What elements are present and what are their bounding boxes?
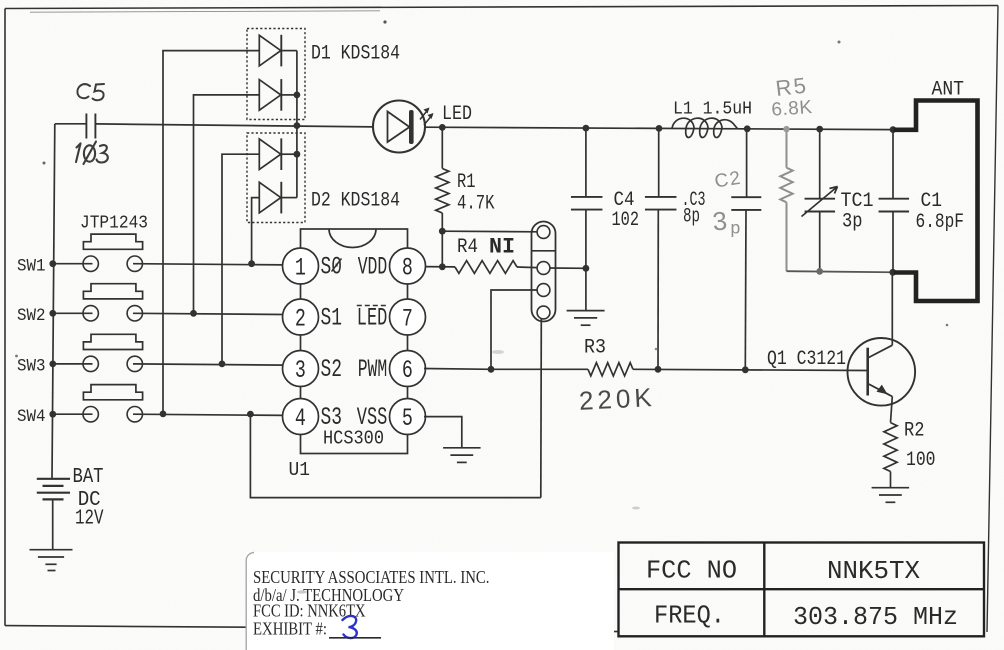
wire R1 node down to VDD [441,231,443,267]
header connector J1 [532,222,556,322]
exhibit label paper [246,552,614,650]
svg-text:4.7K: 4.7K [457,193,495,216]
ground (R2) [872,487,910,489]
svg-text:4: 4 [295,404,306,433]
svg-text:SECURITY ASSOCIATES INTL. INC.: SECURITY ASSOCIATES INTL. INC. [253,567,490,587]
svg-text:p: p [731,218,741,238]
svg-text:3p: 3p [842,211,863,234]
svg-text:Q1 C3121: Q1 C3121 [767,348,846,371]
pin 2 circle [283,299,319,335]
node LED/R1 [439,124,446,131]
node rail/TC1 [816,126,823,133]
exhibit number 3 (blue handwritten) [343,616,357,638]
svg-text:FREQ.: FREQ. [654,601,725,631]
speck [655,348,658,351]
pin 1 circle [283,248,319,284]
node R1 / header pin1 [439,228,446,235]
inductor L1 1.5uH [672,118,747,137]
node rail/C1 [890,126,897,133]
capacitor C4 102 [571,128,603,311]
svg-text:6.8K: 6.8K [771,97,813,121]
svg-text:C1: C1 [921,190,943,213]
svg-text:SW2: SW2 [17,306,46,326]
speck [43,162,46,165]
smudge [492,350,504,354]
C5 value 103 (handwritten, slashed zero) [76,142,108,165]
resistor R4 (NI) [455,261,517,274]
antenna ANT [894,101,978,302]
svg-text:C2: C2 [713,167,743,192]
node rail/SW2 [49,310,56,317]
svg-text:FCC NO: FCC NO [646,556,737,586]
diode cathode bus [296,51,298,198]
diode D2b (bottom) [259,182,297,214]
svg-text:NI: NI [489,235,515,260]
node rail/C4 [583,125,590,132]
node rail/C2 [744,125,751,132]
svg-text:5: 5 [402,404,413,433]
node rail/R5 (pencil) [783,126,789,132]
svg-text:S1: S1 [321,304,343,333]
svg-text:JTP1243: JTP1243 [80,213,148,234]
pin 8 circle [390,248,426,284]
node D2 top cathode [294,151,301,158]
LED indicator [373,101,434,153]
wire R3 to Q1 base [633,369,868,370]
svg-text:6.8pF: 6.8pF [916,211,965,234]
wire SW4 to D1a anode [163,51,259,414]
node SW4 branch up [160,411,167,418]
wire VDD pin8 [424,266,455,268]
capacitor C2 3p [731,129,761,370]
node SW4 branch down [247,411,254,418]
svg-text:LED: LED [357,304,388,333]
svg-text:220K: 220K [578,382,656,416]
switch SW4 [53,385,284,422]
svg-text:1: 1 [295,253,306,282]
node rail/SW3 [49,361,56,368]
node rail/SW4 [49,411,56,418]
svg-text:BAT: BAT [73,466,104,489]
switch SW3 [53,334,284,371]
wire collector [891,273,893,346]
resistor R3 [588,363,633,376]
pin label S0 [321,253,343,282]
svg-text:SW1: SW1 [17,256,46,276]
svg-text:8p: 8p [683,206,700,229]
bottom return rail [250,414,540,498]
node SW2 branch [190,310,197,317]
D1 dashed outline [247,29,305,120]
node SW1 branch [248,260,255,267]
svg-text:HCS300: HCS300 [323,428,384,450]
node C3 bottom [655,366,662,373]
pin 6 circle [390,351,426,387]
svg-text:S0: S0 [321,253,343,282]
svg-text:8: 8 [402,253,413,282]
title block table [619,543,985,637]
svg-text:2: 2 [295,304,306,333]
speck [383,20,386,23]
node pin3/PWM [488,366,495,373]
wire header pin4 down to bottom rail [540,319,543,498]
svg-text:102: 102 [612,209,640,232]
resistor R2 100 [884,397,897,488]
smudge [632,507,640,510]
svg-text:LED: LED [442,103,472,126]
svg-text:EXHIBIT #:: EXHIBIT #: [253,619,327,639]
ground (battery) [30,550,73,571]
resistor R1 4.7K [436,127,449,231]
svg-text:ANT: ANT [932,79,965,102]
battery BAT DC 12V [37,479,70,550]
left vertical rail [52,124,55,479]
wire R4 to header pin2 [517,266,537,269]
pin 4 circle [283,399,319,435]
node D1 bottom cathode [294,92,301,99]
svg-text:R4: R4 [457,236,478,259]
diode D1b [259,79,297,111]
op IC U1 HCS300 body [301,229,408,454]
svg-text:SW3: SW3 [17,357,46,377]
transistor Q1 C3121 [848,338,916,406]
node SW3 branch [219,361,226,368]
svg-text:D2 KDS184: D2 KDS184 [311,190,400,213]
svg-text:12V: 12V [75,508,104,531]
capacitor C5 [86,114,95,139]
wire R1 to header pin1 [442,230,537,233]
value 3p (handwritten) [711,205,740,237]
svg-text:7: 7 [402,304,413,333]
main supply rail [424,127,893,129]
pin label LED (active low) [357,304,388,333]
node C2 bottom / base [742,366,749,373]
node C4/header pin2 [583,265,590,272]
diode D1a (top) [259,35,297,67]
tank bottom wire [787,271,894,272]
trimmer capacitor TC1 3p [802,129,838,271]
svg-text:100: 100 [906,449,936,472]
node rail/SW1 [49,260,56,267]
svg-text:R3: R3 [584,337,606,360]
resistor R5 (pencil) [780,129,792,271]
pin 3 circle [283,351,319,387]
exhibit underline [329,637,381,639]
PWM rail [424,368,588,371]
pin 5 circle [390,399,426,435]
svg-text:U1: U1 [289,459,311,481]
svg-text:L1 1.5uH: L1 1.5uH [673,100,752,120]
ground (VSS) [443,447,481,449]
svg-text:S2: S2 [321,355,343,384]
svg-text:3: 3 [295,356,306,385]
diode D2a [259,138,297,170]
node TC1 bottom [816,268,823,275]
speck [946,324,949,327]
wire SW1 to D2b anode [252,198,260,264]
svg-text:FCC ID: NNK6TX: FCC ID: NNK6TX [253,601,366,621]
switch SW1 [53,234,284,271]
capacitor C1 6.8pF [879,130,910,273]
D2 dashed outline [247,133,305,223]
wire SW2 to D1b anode [194,95,260,313]
svg-text:D1 KDS184: D1 KDS184 [311,43,400,66]
speck [838,41,841,44]
node main rail / diode bus [294,122,301,129]
speck [15,355,18,358]
node VDD / R4 [439,263,446,270]
svg-text:R1: R1 [457,171,476,194]
svg-text:303.875 MHz: 303.875 MHz [793,602,958,632]
smudge [297,590,307,593]
wire C5 to left rail [55,123,86,125]
label R4 NI [457,235,515,260]
svg-text:SW4: SW4 [17,407,46,427]
wire C5 to diode bus (main rail left) [95,124,373,127]
pin 7 circle [390,299,426,335]
wire SW3 to D2a anode [222,154,259,364]
svg-text:3: 3 [711,205,728,236]
node C1 bottom / collector [889,269,896,276]
svg-text:NNK5TX: NNK5TX [827,556,920,586]
svg-text:PWM: PWM [358,355,388,384]
svg-text:R2: R2 [904,420,925,443]
capacitor C3 8p [645,128,677,369]
wire header pin2 to C4 node [550,267,586,269]
C5 label (handwritten) [77,84,104,100]
switch SW2 [53,284,284,321]
node rail/C3 [656,125,663,132]
wire header pin3 down to PWM rail [491,290,537,369]
ground (C4) [567,310,605,312]
wire VSS pin5 to ground [424,417,462,448]
svg-text:6: 6 [402,356,413,385]
svg-text:VDD: VDD [358,253,388,282]
